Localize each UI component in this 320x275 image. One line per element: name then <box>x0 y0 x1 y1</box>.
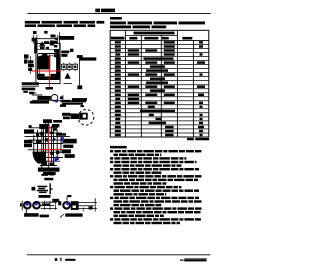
top view: left E dimension labels and arrow line <box>24 54 29 58</box>
side view: right tick and blob <box>62 95 64 101</box>
side view: blue annotation dot <box>55 101 58 103</box>
table header: SYMBOL MIN NOMINAL MAX NOTES <box>111 37 125 40</box>
footer intersil text <box>65 259 75 261</box>
lead detail left: blue dot 2 <box>35 203 38 206</box>
notes text lines <box>110 150 113 152</box>
detail A: red center lines <box>47 126 49 163</box>
table data rows (dimension values) <box>115 41 121 43</box>
lead detail right: bend radius ring <box>63 202 70 209</box>
top view: detail leader triangle <box>65 73 71 79</box>
top view: lead-tip envelope rectangle <box>36 43 60 83</box>
detail A: bottom dim texts <box>38 168 60 172</box>
end view: text below <box>39 195 51 198</box>
footer rule <box>27 254 211 256</box>
lead detail right: blue dot <box>66 202 69 205</box>
side view: lead foot callout circle <box>51 95 58 102</box>
table header: MILLIMETERS <box>134 32 175 35</box>
lead detail left: caption below <box>24 213 38 217</box>
lead detail left: lead going down <box>25 207 27 216</box>
side view: left seating-plane texts <box>22 82 39 85</box>
detail A: blue annotation marks <box>62 137 65 141</box>
document number text top center <box>95 9 100 13</box>
package code Q80.14x20 <box>110 17 122 20</box>
top view: right side dim texts <box>61 51 69 54</box>
end view: right vertical dimension bar <box>49 183 51 194</box>
side view: dim text under top view <box>46 87 53 90</box>
NOTES: heading <box>110 146 127 149</box>
lead detail right: dark lead block <box>71 201 79 210</box>
top view: dark lead band along bottom edge <box>38 76 60 80</box>
lead detail right: tick and text above <box>67 195 71 197</box>
detail callout: dashed circle detail A <box>78 110 94 126</box>
top view: right lead dash band <box>54 41 57 44</box>
side view: small left dim text <box>29 92 34 95</box>
detail callout: dim texts above <box>61 100 87 102</box>
detail A: scattered dark blocks <box>39 124 45 129</box>
title line 1: Metric Plastic Quad Flatpack Packages (MQFP) <box>25 21 40 24</box>
title line 2: 80 Lead Metric Plastic Quad Flatpack Package <box>25 24 36 27</box>
top view: red center lines <box>49 54 51 87</box>
table: outer border and grid <box>110 30 209 137</box>
top view: right side E/E1 dim vertical line <box>59 32 61 49</box>
top view: pin 1 corner triangle marker <box>39 41 46 46</box>
side view: lower dim texts <box>30 101 49 104</box>
lead detail left: dimension lines right <box>41 201 58 203</box>
lead detail right: dimension lines <box>79 202 97 204</box>
top view: bottom line extension <box>64 82 73 84</box>
detail A: vertical construction lines <box>37 130 39 160</box>
header rule <box>28 13 211 15</box>
footer page number <box>55 258 58 261</box>
detail A: left dim texts <box>24 129 34 133</box>
end view: stacked lead section bars <box>38 186 48 188</box>
top view: dark left edge band <box>34 40 37 54</box>
lead detail left: bend radius ring 2 <box>33 202 40 209</box>
table revision caption <box>187 138 194 140</box>
end view: left datum marker <box>32 187 36 191</box>
lead detail right: leader diagonal <box>60 214 64 217</box>
top view: dark lead block top-right <box>50 41 54 46</box>
top view: datum feature boxes -A- -B- -D- <box>62 64 67 69</box>
detail A: top dim texts <box>43 119 52 123</box>
top view: 'see detail' thick annotation bar right <box>77 55 83 58</box>
end view: text above <box>44 178 53 181</box>
detail callout: lead tip structure left <box>62 113 71 116</box>
right title line 2 <box>110 26 131 29</box>
detail A: horizontal construction lines <box>30 127 58 129</box>
detail A: extra center verticals <box>43 128 45 158</box>
footer intersil logo right <box>180 260 184 261</box>
side view: package profile <box>32 94 43 96</box>
lead detail left: bend radius ring 1 <box>24 202 31 209</box>
side view: seating plane line <box>32 99 70 101</box>
lead detail left: left extension line and tiny text <box>21 201 23 211</box>
detail A: right dim texts <box>63 139 77 144</box>
top view: D dimension line with extension ticks <box>34 38 58 40</box>
end view: dim text top <box>41 174 48 176</box>
lead detail left: blue dot 1 <box>26 203 29 206</box>
right title line 1 <box>110 22 126 25</box>
detail A: dark filled lead body lower-left <box>33 152 46 164</box>
top view: D/D1 dimension labels <box>33 31 37 34</box>
top view: body right edge dark band <box>56 50 59 81</box>
top view: package body outline <box>37 54 59 80</box>
lead detail right: caption below <box>65 213 82 216</box>
top view: dark chip/hatch region upper-left quadrant <box>38 53 50 69</box>
detail callout: lead cross-section inside <box>79 113 87 120</box>
